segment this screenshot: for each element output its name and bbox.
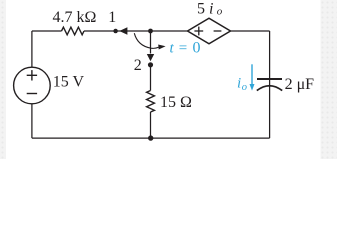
- svg-text:2 μF: 2 μF: [285, 76, 315, 93]
- svg-text:5: 5: [197, 1, 205, 18]
- svg-text:i: i: [209, 1, 213, 18]
- svg-text:1: 1: [108, 9, 116, 26]
- svg-text:4.7 kΩ: 4.7 kΩ: [53, 9, 97, 26]
- svg-text:o: o: [242, 82, 247, 93]
- svg-text:2: 2: [134, 57, 142, 74]
- svg-text:15 Ω: 15 Ω: [160, 94, 192, 111]
- svg-text:0: 0: [193, 39, 201, 56]
- svg-text:o: o: [217, 5, 223, 17]
- svg-text:=: =: [179, 40, 187, 56]
- svg-text:15 V: 15 V: [53, 74, 85, 91]
- svg-text:i: i: [237, 76, 241, 92]
